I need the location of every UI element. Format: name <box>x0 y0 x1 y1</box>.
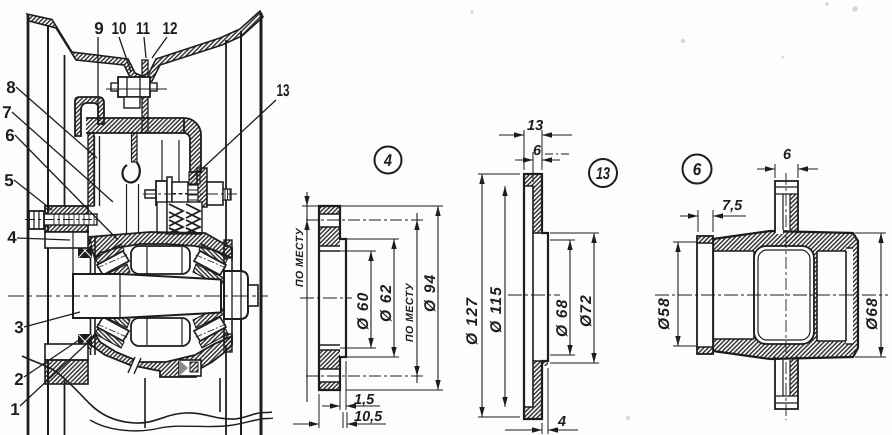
dim d115 <box>504 186 506 407</box>
sprocket bolt centerline <box>143 193 237 195</box>
dim d60 <box>370 251 372 348</box>
hex nut on clamp bolt <box>118 77 150 97</box>
thread end <box>223 189 231 200</box>
hub outline <box>713 231 858 359</box>
hole centerline bottom <box>306 375 424 377</box>
svg-text:6: 6 <box>783 147 792 163</box>
left rim <box>697 236 713 354</box>
gear teeth herringbone block <box>167 202 202 234</box>
elevation lines right of rod <box>162 140 179 202</box>
anchor bolt axis <box>25 219 101 221</box>
leader 11 <box>144 37 146 58</box>
svg-text:3: 3 <box>14 318 23 337</box>
disc inner lines <box>524 186 548 407</box>
svg-text:13: 13 <box>596 164 610 183</box>
dim PO MESTU left <box>306 192 308 402</box>
hub barrel upper <box>131 246 190 274</box>
lock block <box>124 97 140 108</box>
leader 12 <box>152 37 167 58</box>
svg-text:11: 11 <box>136 19 150 38</box>
svg-text:Ø72: Ø72 <box>578 294 595 327</box>
bottom tube <box>790 356 798 396</box>
svg-text:4: 4 <box>557 414 566 430</box>
svg-text:6: 6 <box>693 160 702 179</box>
scan smudges <box>470 2 857 420</box>
axle stub end <box>248 285 258 306</box>
oil seal lower <box>78 334 92 349</box>
clamp bolt shank at V <box>142 60 148 133</box>
left seat lines <box>713 251 754 339</box>
svg-text:1: 1 <box>10 400 19 419</box>
lower stud nut <box>179 360 201 376</box>
dim d94 <box>437 206 439 390</box>
nut axis <box>106 88 167 90</box>
anchor bolt head <box>29 211 44 229</box>
cover plate hook (part 8) <box>75 97 104 136</box>
svg-text:Ø 68: Ø 68 <box>554 299 571 337</box>
oil seal upper <box>78 243 92 258</box>
fork leg left outer <box>27 15 30 435</box>
centerline part4 horizontal <box>300 297 352 299</box>
torn break edge <box>22 356 272 423</box>
disc hatched bottom <box>524 361 548 419</box>
dim d62 <box>393 239 395 357</box>
left seat white <box>713 251 754 339</box>
cover left leg strip <box>88 133 94 206</box>
brake drum left wall <box>91 237 96 355</box>
center cavity white <box>754 246 814 344</box>
svg-text:Ø68: Ø68 <box>864 297 881 330</box>
washer <box>167 177 172 207</box>
right seat white <box>817 251 846 341</box>
dim 10,5 <box>319 394 347 428</box>
centerline part13 <box>508 294 560 296</box>
svg-text:4: 4 <box>7 228 17 247</box>
axle spring washer <box>223 277 225 315</box>
dim d68 <box>569 240 571 355</box>
lines below hub <box>145 378 220 428</box>
svg-text:13: 13 <box>277 81 290 100</box>
fork leg left inner <box>47 25 49 435</box>
hook hanger lines <box>127 184 139 233</box>
bore step lines <box>319 251 340 345</box>
dim d68 right <box>880 233 882 357</box>
brake rod below cover <box>132 133 138 162</box>
brake anchor clamp hatched <box>45 206 88 232</box>
leader 2 <box>24 340 79 377</box>
disc outline <box>524 174 548 419</box>
rib break in lower band <box>128 357 141 374</box>
fender cross-section hatched band <box>27 11 263 85</box>
hub lower hatched band <box>88 334 232 377</box>
hub barrel lower <box>131 318 190 346</box>
flange outline <box>319 206 346 390</box>
lower bracket hatched <box>45 360 88 384</box>
dim d58 <box>677 242 679 346</box>
leader 8 <box>16 87 97 158</box>
flange neck white <box>157 202 167 233</box>
circled label 6 <box>683 155 712 184</box>
leader 9 <box>97 37 99 112</box>
svg-text:ПО МЕСТУ: ПО МЕСТУ <box>404 283 416 342</box>
hole lines <box>319 214 340 382</box>
right seat lines <box>817 248 853 344</box>
leader 7 <box>12 112 113 202</box>
svg-text:Ø 115: Ø 115 <box>488 286 505 333</box>
leader 4 <box>17 238 70 240</box>
bolt stub left <box>145 190 156 198</box>
brake rod hook end <box>122 162 139 182</box>
bolt thread in gear <box>188 185 198 204</box>
leader 13 <box>190 100 276 180</box>
fender left wall <box>64 55 66 435</box>
cover right elbow and leg <box>184 118 201 172</box>
dim 1,5 <box>340 361 346 410</box>
bracket block below clamp <box>45 232 88 248</box>
sprocket gear hatched <box>197 168 207 207</box>
svg-text:10,5: 10,5 <box>354 409 383 425</box>
hub upper hatched band <box>88 232 232 259</box>
horizontal centerline part6 <box>655 294 888 296</box>
nut side tabs <box>111 83 118 91</box>
main centerline <box>8 295 268 297</box>
circled label 13 <box>589 159 617 187</box>
leader 10 <box>119 37 131 72</box>
fork leg right outer <box>260 13 263 435</box>
svg-text:2: 2 <box>14 370 23 389</box>
svg-text:ПО МЕСТУ: ПО МЕСТУ <box>294 228 306 287</box>
svg-text:Ø 62: Ø 62 <box>378 284 395 322</box>
bolt shaft right <box>207 182 223 205</box>
svg-text:12: 12 <box>163 19 178 38</box>
svg-text:9: 9 <box>94 19 103 38</box>
right rim bore white <box>846 248 853 344</box>
flange plates <box>172 182 188 205</box>
dim 7,5 <box>698 210 713 232</box>
dim d127 <box>481 174 483 417</box>
leader 5 <box>14 180 52 210</box>
svg-text:5: 5 <box>4 171 13 190</box>
dim 6 top <box>775 164 798 178</box>
sprocket bolt hex head <box>156 181 167 205</box>
axle nut <box>224 271 248 319</box>
svg-text:8: 8 <box>6 78 15 97</box>
dim 4 bottom <box>542 368 548 434</box>
svg-text:4: 4 <box>383 151 392 170</box>
leader 3 <box>24 312 80 327</box>
svg-text:Ø 94: Ø 94 <box>422 274 439 312</box>
circled label 4 <box>375 147 402 174</box>
svg-text:6: 6 <box>533 143 542 159</box>
leader 1 <box>20 334 97 406</box>
dim 13 top <box>524 130 542 170</box>
svg-text:10: 10 <box>112 19 127 38</box>
hub hatched body <box>713 231 858 359</box>
dim d72 <box>593 233 595 363</box>
svg-text:6: 6 <box>5 126 14 145</box>
svg-text:Ø58: Ø58 <box>656 297 673 330</box>
vertical centerline tube <box>785 173 787 420</box>
svg-text:Ø 127: Ø 127 <box>464 297 481 345</box>
stay rod below hook <box>95 136 100 206</box>
cover top band <box>86 118 184 133</box>
svg-text:1,5: 1,5 <box>354 392 375 408</box>
dim 6 <box>532 152 534 182</box>
svg-text:13: 13 <box>527 118 543 134</box>
leader 6 <box>15 135 118 240</box>
torn break edge lower <box>90 418 273 431</box>
anchor bolt shaft through clamp <box>44 214 97 225</box>
axle <box>73 274 221 318</box>
svg-text:7: 7 <box>2 103 11 122</box>
bracket block lower mirror <box>45 344 88 360</box>
drum right wall with hatched ring sections <box>224 240 232 258</box>
top tube <box>775 194 783 234</box>
dim PO MESTU right <box>416 213 418 383</box>
center cavity outline <box>754 246 814 344</box>
flange body hatched blocks <box>319 206 340 214</box>
fork leg right inner <box>240 31 242 435</box>
hole centerline top <box>306 219 424 221</box>
fender right wall <box>225 40 227 435</box>
taper roller bearing (4 corners via reuse) <box>95 244 130 286</box>
svg-text:Ø 60: Ø 60 <box>355 292 372 330</box>
svg-text:7,5: 7,5 <box>722 198 743 214</box>
disc hatched top <box>524 174 542 233</box>
